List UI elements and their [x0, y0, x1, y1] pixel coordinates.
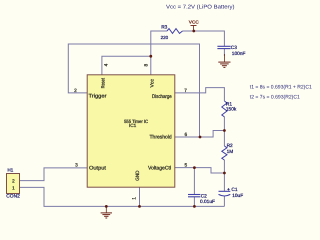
- svg-text:Vcc = 7.2V (LiPO Battery): Vcc = 7.2V (LiPO Battery): [166, 4, 235, 10]
- svg-text:Vcc: Vcc: [150, 78, 156, 87]
- svg-text:VoltageCtl: VoltageCtl: [148, 165, 171, 171]
- svg-text:2: 2: [12, 179, 15, 184]
- svg-text:5: 5: [184, 162, 187, 168]
- svg-text:7: 7: [184, 88, 187, 94]
- resistor R1: [222, 101, 227, 117]
- svg-text:t2 = 7s = 0.693(R2)C1: t2 = 7s = 0.693(R2)C1: [250, 95, 300, 101]
- wire vcc pin8 stub: [150, 56, 152, 75]
- wire reset pin4 up and right to pin8 junction: [102, 56, 151, 75]
- svg-text:CON2: CON2: [6, 194, 20, 200]
- svg-text:R3: R3: [161, 25, 167, 31]
- power VCC symbol: [189, 20, 199, 31]
- junction R2/C1 node: [223, 172, 226, 175]
- svg-text:t1 = 8s = 0.693(R1 + R2)C1: t1 = 8s = 0.693(R1 + R2)C1: [250, 84, 312, 90]
- svg-text:1: 1: [131, 197, 137, 200]
- svg-text:C2: C2: [201, 193, 207, 199]
- junction threshold node: [199, 136, 202, 139]
- capacitor C3: [217, 46, 230, 48]
- 555 timer IC1 body: [87, 75, 175, 187]
- wire C1 bottom to rail corner: [223, 196, 225, 206]
- junction ground rail at C2: [193, 205, 196, 208]
- svg-text:C3: C3: [231, 45, 237, 51]
- wire R1 bottom lead: [223, 117, 225, 131]
- svg-text:150k: 150k: [226, 107, 237, 113]
- svg-text:IC1: IC1: [129, 123, 137, 128]
- svg-text:8: 8: [144, 64, 150, 67]
- svg-text:1M: 1M: [227, 149, 234, 155]
- svg-text:Output: Output: [89, 166, 107, 172]
- wire trigger net: IC pin2 left, up, across top, down to threshold junction: [68, 44, 199, 137]
- resistor R2: [222, 146, 227, 160]
- svg-text:Trigger: Trigger: [89, 94, 107, 100]
- svg-text:R1: R1: [226, 101, 232, 107]
- capacitor C2: [188, 195, 200, 197]
- svg-text:2: 2: [74, 88, 77, 94]
- junction pin4/pin8 feed: [149, 55, 152, 58]
- wire connector pin1 to ground rail: [20, 187, 225, 206]
- wire output pin3 to connector pin2: [20, 168, 88, 181]
- svg-text:1: 1: [12, 185, 15, 190]
- plus sign C1: [227, 188, 229, 190]
- junction VCC node: [192, 30, 195, 33]
- wire C2 branch down from pin5 wire: [193, 168, 195, 195]
- svg-text:10uF: 10uF: [232, 193, 243, 199]
- svg-text:6: 6: [184, 132, 187, 138]
- connector H1 CON2: [7, 174, 20, 194]
- wire IC GND pin1 down to rail: [139, 187, 141, 206]
- wire R2 top lead: [223, 131, 225, 147]
- svg-text:VCC: VCC: [189, 20, 199, 25]
- svg-text:555 Timer IC: 555 Timer IC: [124, 119, 149, 124]
- ground (below C3): [218, 54, 230, 67]
- junction pin5/C2 node: [193, 166, 196, 169]
- junction R1/R2 node: [223, 129, 226, 132]
- svg-text:0.01uF: 0.01uF: [200, 199, 215, 205]
- wire pin8 junction up to R3 left lead: [151, 31, 167, 56]
- ground (bottom rail): [101, 206, 112, 218]
- wire C3 bottom to ground: [223, 49, 225, 56]
- svg-text:H1: H1: [8, 168, 14, 173]
- svg-text:220: 220: [161, 35, 169, 40]
- wire R3 right lead to VCC dot and on to C3: [183, 31, 225, 46]
- wire C2 bottom to ground rail: [193, 197, 195, 207]
- svg-text:R2: R2: [227, 143, 233, 149]
- svg-text:Threshold: Threshold: [150, 135, 172, 141]
- svg-text:Reset: Reset: [101, 77, 107, 88]
- svg-text:C1: C1: [231, 187, 237, 193]
- wire voltagectl pin5 to C1 top junction: [175, 168, 225, 173]
- junction ground rail at GND pin: [138, 205, 141, 208]
- junction ground rail at ground symbol: [105, 205, 108, 208]
- resistor R3: [167, 29, 183, 34]
- svg-text:GND: GND: [135, 170, 141, 181]
- wire discharge pin7 to R1 top: [175, 88, 225, 101]
- svg-text:3: 3: [75, 163, 78, 169]
- svg-text:100nF: 100nF: [232, 51, 246, 57]
- capacitor C1 polarized: [219, 191, 231, 196]
- svg-text:4: 4: [103, 63, 109, 66]
- svg-text:Discharge: Discharge: [152, 94, 172, 100]
- wire C1 top lead: [223, 173, 225, 191]
- wire R2 bottom lead to C1 junction: [223, 160, 225, 173]
- wire threshold pin6 to R1/R2 junction: [175, 131, 225, 138]
